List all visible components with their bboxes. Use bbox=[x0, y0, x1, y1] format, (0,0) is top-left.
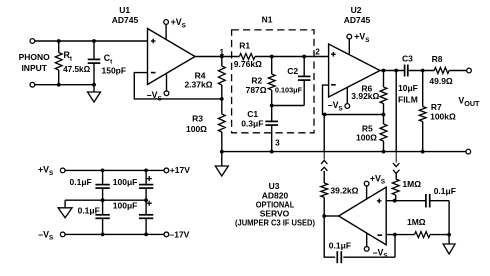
svg-text:U2: U2 bbox=[351, 5, 362, 15]
svg-text:R3: R3 bbox=[192, 114, 203, 124]
svg-text:1MΩ: 1MΩ bbox=[407, 217, 426, 227]
svg-text:C3: C3 bbox=[402, 53, 413, 63]
svg-text:39.2kΩ: 39.2kΩ bbox=[330, 186, 358, 196]
svg-text:R7: R7 bbox=[431, 102, 442, 112]
svg-text:0.1μF: 0.1μF bbox=[434, 186, 456, 196]
svg-text:C2: C2 bbox=[287, 66, 298, 76]
svg-text:100Ω: 100Ω bbox=[356, 132, 377, 142]
svg-text:47.5kΩ: 47.5kΩ bbox=[63, 65, 90, 74]
svg-text:0.3μF: 0.3μF bbox=[241, 119, 263, 129]
svg-text:C1: C1 bbox=[247, 109, 258, 119]
svg-text:AD745: AD745 bbox=[344, 15, 371, 25]
svg-text:100kΩ: 100kΩ bbox=[430, 112, 456, 122]
svg-text:3.92kΩ: 3.92kΩ bbox=[351, 91, 379, 101]
svg-text:PHONO: PHONO bbox=[19, 52, 51, 62]
svg-text:100μF: 100μF bbox=[113, 200, 138, 210]
svg-text:+17V: +17V bbox=[170, 165, 190, 175]
svg-text:FILM: FILM bbox=[398, 94, 418, 104]
svg-text:0.1μF: 0.1μF bbox=[329, 240, 351, 250]
svg-text:AD745: AD745 bbox=[112, 15, 139, 25]
svg-text:0.1μF: 0.1μF bbox=[78, 206, 100, 216]
svg-text:1: 1 bbox=[219, 48, 224, 57]
svg-text:3: 3 bbox=[275, 139, 280, 148]
svg-text:100Ω: 100Ω bbox=[186, 124, 207, 134]
svg-text:U1: U1 bbox=[119, 5, 130, 15]
svg-text:2.37kΩ: 2.37kΩ bbox=[184, 80, 212, 90]
svg-text:–17V: –17V bbox=[170, 230, 190, 240]
svg-text:787Ω: 787Ω bbox=[246, 85, 267, 95]
svg-text:N1: N1 bbox=[262, 14, 273, 24]
svg-text:INPUT: INPUT bbox=[21, 63, 47, 73]
svg-text:1MΩ: 1MΩ bbox=[402, 179, 421, 189]
svg-text:R1: R1 bbox=[239, 41, 250, 51]
svg-text:150pF: 150pF bbox=[102, 66, 127, 76]
svg-text:49.9Ω: 49.9Ω bbox=[429, 76, 453, 86]
svg-text:0.1μF: 0.1μF bbox=[70, 177, 92, 187]
svg-text:9.76kΩ: 9.76kΩ bbox=[234, 59, 262, 69]
svg-text:0.103μF: 0.103μF bbox=[275, 85, 303, 94]
svg-text:10μF: 10μF bbox=[398, 83, 418, 93]
svg-text:(JUMPER C3 IF USED): (JUMPER C3 IF USED) bbox=[235, 218, 315, 228]
svg-text:R8: R8 bbox=[432, 54, 443, 64]
svg-text:100μF: 100μF bbox=[113, 177, 138, 187]
svg-text:2: 2 bbox=[315, 47, 320, 56]
